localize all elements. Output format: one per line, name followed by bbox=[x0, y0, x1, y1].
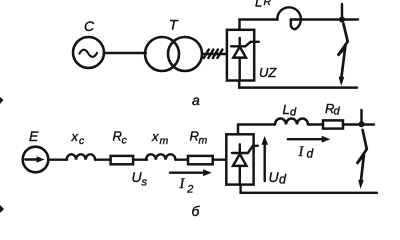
voltage arrow Ud bbox=[261, 136, 268, 181]
svg-text:L: L bbox=[283, 102, 290, 117]
svg-text:I: I bbox=[179, 176, 186, 192]
svg-text:d: d bbox=[307, 147, 314, 161]
svg-text:UZ: UZ bbox=[259, 65, 277, 80]
page speck lower bbox=[0, 205, 4, 213]
converter UZ box bbox=[227, 30, 254, 81]
label xc bbox=[71, 129, 86, 147]
converter box b bbox=[226, 134, 253, 184]
svg-text:C: C bbox=[84, 18, 95, 34]
reactor LR bbox=[277, 7, 301, 29]
label Id bbox=[298, 144, 314, 161]
current arrow Id bbox=[288, 136, 331, 143]
resistor Rd bbox=[323, 120, 343, 128]
wire converter b bottom to bus b bbox=[241, 185, 377, 193]
generator C (AC source circle) bbox=[73, 37, 104, 68]
svg-text:R: R bbox=[113, 129, 122, 144]
svg-text:d: d bbox=[279, 173, 287, 187]
svg-text:б: б bbox=[192, 203, 201, 219]
svg-text:c: c bbox=[122, 135, 128, 147]
svg-text:x: x bbox=[71, 129, 79, 144]
label I2 bbox=[179, 176, 194, 196]
svg-text:R: R bbox=[190, 129, 199, 144]
wire converter b top to Ld bbox=[238, 125, 275, 135]
svg-text:E: E bbox=[29, 128, 39, 144]
transformer T (two overlapping circles) bbox=[145, 37, 202, 71]
wire E to xc bbox=[48, 158, 67, 160]
svg-text:m: m bbox=[199, 135, 208, 147]
svg-text:U: U bbox=[269, 169, 280, 185]
node junction dot bus b bbox=[359, 121, 365, 127]
wire Rm to converter b bbox=[213, 158, 227, 160]
label Us bbox=[132, 169, 148, 189]
bus stub above junction a bbox=[341, 4, 343, 20]
wire Ld to Rd bbox=[308, 123, 323, 125]
label xm bbox=[151, 129, 169, 147]
svg-text:d: d bbox=[334, 106, 341, 118]
svg-text:T: T bbox=[169, 17, 179, 33]
wire Rc to xm bbox=[133, 158, 147, 160]
wire xm to Rm bbox=[175, 158, 188, 160]
wire transformer to converter with hatch marks bbox=[202, 50, 227, 59]
svg-text:s: s bbox=[142, 177, 148, 189]
svg-text:a: a bbox=[192, 92, 200, 108]
label Rc bbox=[113, 129, 128, 147]
short-circuit arrow (lightning) circuit a bbox=[338, 24, 348, 87]
svg-text:c: c bbox=[79, 135, 85, 147]
wire UZ bottom to bus a bbox=[239, 81, 357, 88]
current arrow I2 bbox=[170, 169, 212, 176]
short-circuit arrow (lightning) circuit b bbox=[357, 130, 367, 189]
svg-text:L: L bbox=[255, 0, 262, 10]
label Ld bbox=[283, 102, 298, 119]
wire Rd to bus b bbox=[343, 123, 374, 125]
inductor xm bbox=[146, 154, 175, 159]
inductor xc bbox=[67, 154, 96, 159]
label LR (cropped at top) bbox=[255, 0, 272, 10]
node junction dot bus a bbox=[339, 17, 345, 23]
inductor Ld bbox=[275, 119, 308, 125]
label Rm bbox=[190, 129, 208, 147]
wire generator to transformer bbox=[104, 52, 146, 54]
page speck upper bbox=[0, 97, 4, 104]
label Ud bbox=[269, 169, 288, 187]
thyristor inside UZ bbox=[231, 38, 259, 81]
label Rd bbox=[325, 101, 341, 118]
wire reactor to bus a bbox=[291, 18, 358, 20]
svg-text:x: x bbox=[151, 129, 159, 144]
svg-text:m: m bbox=[160, 135, 169, 147]
svg-text:d: d bbox=[290, 107, 297, 119]
resistor Rc bbox=[111, 156, 134, 164]
wire xc to Rc bbox=[95, 158, 111, 160]
bus stub above junction b bbox=[360, 110, 362, 124]
svg-text:R: R bbox=[264, 0, 272, 8]
resistor Rm bbox=[188, 156, 213, 164]
svg-text:I: I bbox=[298, 144, 305, 160]
thyristor inside converter b bbox=[232, 144, 258, 184]
wire UZ top to reactor bbox=[240, 20, 278, 30]
svg-text:2: 2 bbox=[186, 184, 193, 196]
source E circle bbox=[23, 147, 49, 173]
